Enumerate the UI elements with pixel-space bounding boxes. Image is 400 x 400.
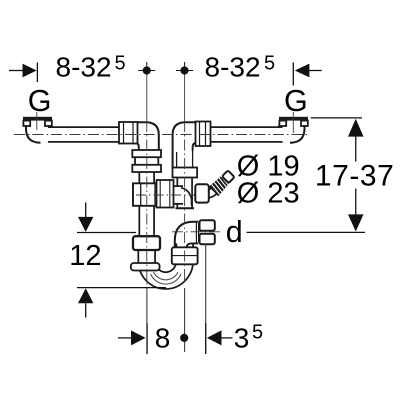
dim 8-32(5) left: arrow [23,64,37,78]
link pipe coupling ring [157,180,174,208]
link pipe (left tee to Y-junction) [155,185,183,205]
hose nipple elbow pipe [204,189,216,195]
dim 12: down arrow stem [85,203,87,219]
horizontal inlet centerline [14,134,310,136]
dim 12: bottom line [77,287,166,289]
dim 8-32(5) left: text [56,52,126,83]
svg-text:8-32: 8-32 [56,52,112,83]
svg-text:8-32: 8-32 [205,52,261,83]
right downpipe elbow fitting [173,122,201,168]
dim 8-32(5) left: leader line [9,70,23,72]
left inlet pipe run (G flange to left downpipe) [37,120,147,240]
outlet axis projection line [205,244,207,355]
right G flange [279,117,308,126]
dim 8 bottom: arrow [131,330,146,345]
trap inlet nut [133,236,160,250]
dim 17-37: bottom reference line (d axis) [247,231,366,233]
svg-text:5: 5 [252,322,263,344]
right flange stub fitting [278,121,305,143]
center mark dot left [138,62,155,75]
trap left socket bulge [131,263,160,271]
hose nipple barb [209,169,236,196]
left downpipe sleeve [132,150,161,172]
dim 12: down arrow [78,217,93,232]
svg-text:5: 5 [115,53,126,75]
Y-junction fillet curve [181,188,192,206]
dim 12: up arrow [78,288,93,303]
svg-text:3: 3 [234,323,250,354]
outlet pipe end lines [195,223,197,243]
dim 17-37: up arrow [348,119,364,137]
hose nipple nut [195,184,209,202]
left downpipe elbow fitting [131,122,159,151]
Y-junction bottom cap [176,207,195,209]
outlet connector squares (d) [200,220,215,244]
dim 3(5): arrow [207,330,222,345]
link pipe centerline [136,194,199,196]
left flange stub fitting [26,121,53,143]
right inlet compression coupling [196,122,211,147]
dim 12: top line [77,232,136,234]
outlet elbow fitting [175,222,199,249]
svg-text:G: G [284,84,308,118]
left tee fitting [133,183,159,206]
dim 3(5): leader line [222,337,233,339]
svg-text:5: 5 [264,53,275,75]
svg-text:d: d [226,215,243,249]
dim 8-32(5) right: text [205,52,276,83]
dim 8-32(5) right: arrow [295,64,310,78]
dim 3(5): tick [205,323,207,354]
svg-text:12: 12 [69,240,101,272]
center mark dot right [176,62,193,75]
svg-text:G: G [28,84,52,118]
trap right leg ring [172,247,198,264]
svg-text:Ø 23: Ø 23 [237,178,300,210]
U-bend shading arcs [154,272,179,280]
dim 12: up arrow stem [85,303,87,317]
left downpipe centerline [146,74,148,354]
outlet centerline [172,231,222,233]
dim 17-37: down arrow [348,214,364,231]
dim 8-32(5) left: tick [36,63,38,83]
trap run (left downpipe through U-bend to outlet) [147,232,200,281]
svg-text:8: 8 [155,323,171,354]
dim 8-32(5) right: leader line [309,70,321,72]
svg-text:17-37: 17-37 [315,159,394,192]
dim 17-37: stem upper [355,136,357,162]
dim 8 bottom: leader line [118,337,131,339]
left inlet compression coupling [119,122,138,144]
right G axis line [292,112,294,133]
right inlet pipe run (G flange to Y-junction) [185,120,294,209]
left G axis line [36,112,38,130]
dim 3(5): text [234,322,263,354]
dim 8 bottom: dot [180,334,188,342]
right downpipe socket ring [173,168,198,178]
dim 8 bottom: tick [146,323,148,354]
left G flange [23,117,52,126]
dim 8-32(5) right: tick [292,63,294,86]
right downpipe centerline [184,74,186,352]
dim 17-37: top reference line [311,117,362,119]
dim 17-37: stem lower [355,189,357,216]
